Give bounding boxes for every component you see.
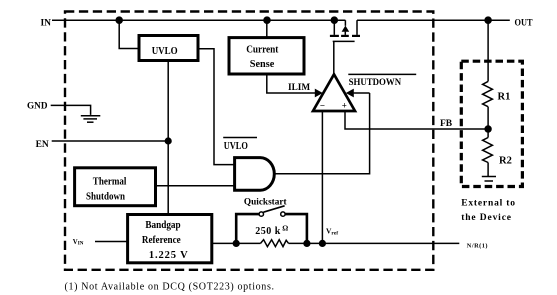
svg-text:−: − bbox=[320, 100, 325, 110]
svg-text:External to: External to bbox=[461, 198, 515, 208]
svg-text:+: + bbox=[342, 100, 347, 110]
svg-text:IN: IN bbox=[40, 18, 51, 28]
svg-text:(1) Not Available on DCQ (SOT2: (1) Not Available on DCQ (SOT223) option… bbox=[65, 281, 275, 292]
svg-text:the Device: the Device bbox=[461, 213, 511, 223]
svg-text:VIN: VIN bbox=[73, 239, 84, 247]
svg-text:Current: Current bbox=[246, 45, 279, 56]
svg-text:UVLO: UVLO bbox=[152, 46, 178, 57]
svg-text:Quickstart: Quickstart bbox=[244, 197, 288, 207]
svg-text:Shutdown: Shutdown bbox=[86, 191, 125, 202]
svg-text:Thermal: Thermal bbox=[93, 176, 127, 187]
svg-text:GND: GND bbox=[27, 102, 48, 112]
svg-text:ILIM: ILIM bbox=[288, 83, 310, 93]
svg-text:Ω: Ω bbox=[282, 223, 288, 232]
svg-text:250 k: 250 k bbox=[255, 226, 281, 237]
svg-text:OUT: OUT bbox=[515, 19, 534, 29]
svg-text:Vref: Vref bbox=[326, 227, 338, 237]
svg-text:R2: R2 bbox=[499, 156, 512, 167]
svg-text:N/R(1): N/R(1) bbox=[467, 243, 488, 250]
svg-text:EN: EN bbox=[36, 140, 49, 150]
svg-text:Reference: Reference bbox=[142, 235, 181, 246]
svg-text:SHUTDOWN: SHUTDOWN bbox=[349, 78, 402, 88]
svg-text:1.225 V: 1.225 V bbox=[149, 250, 188, 261]
svg-text:FB: FB bbox=[440, 119, 453, 129]
svg-text:Sense: Sense bbox=[250, 59, 275, 70]
svg-text:Bandgap: Bandgap bbox=[145, 220, 180, 231]
svg-text:R1: R1 bbox=[498, 92, 511, 103]
svg-text:UVLO: UVLO bbox=[224, 141, 248, 152]
